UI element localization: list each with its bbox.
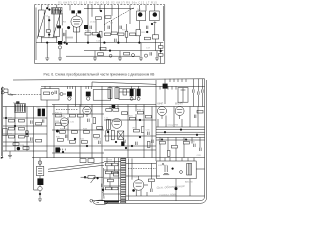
svg-text:С33 05: С33 05	[94, 139, 102, 141]
junction node v1	[48, 19, 50, 21]
svg-text:Рис. 6. Схема преобразовательн: Рис. 6. Схема преобразовательной части п…	[44, 72, 156, 76]
capacitor C5	[115, 39, 117, 42]
svg-text:R54 1м: R54 1м	[84, 178, 92, 180]
label R52	[182, 140, 189, 142]
junction node o	[115, 141, 117, 143]
label C14	[96, 40, 101, 42]
wire: rect bottoms link	[41, 16, 56, 38]
tube V4 envelope	[60, 118, 68, 126]
ground sym 2	[58, 58, 62, 61]
junction node l	[74, 138, 76, 140]
resistor R52	[183, 141, 189, 144]
capacitor C33	[99, 141, 101, 144]
ground lead 4	[119, 51, 121, 58]
wire: dashed AGC link	[56, 108, 78, 110]
resistor R58	[112, 171, 118, 174]
junction blob f	[97, 34, 101, 38]
wire: stepped rail to IF cans	[92, 82, 156, 86]
resistor R31	[69, 114, 75, 117]
resistor R9	[130, 33, 136, 36]
junction blob k	[56, 130, 59, 133]
junction node q4	[196, 134, 198, 136]
capacitor C29	[42, 119, 44, 122]
resistor R15b	[144, 37, 150, 40]
resistor R47	[145, 115, 151, 118]
junction node e	[66, 43, 68, 45]
junction blob j	[17, 147, 20, 150]
wire: riser x118	[117, 5, 119, 43]
decoupling blob C30	[55, 147, 60, 152]
bus: main horizontal rail y106.5	[3, 106, 205, 108]
junction node v2	[48, 34, 50, 36]
capacitor C28	[31, 137, 32, 140]
svg-text:L5 30: L5 30	[90, 21, 96, 23]
IF transformer can T12	[15, 104, 26, 113]
wire: top drops	[48, 5, 146, 24]
chassis top border	[13, 79, 205, 80]
junction node q	[161, 139, 163, 141]
resistor R64	[121, 112, 127, 115]
figure caption	[44, 72, 156, 76]
capacitor C24	[193, 89, 195, 92]
svg-text:к блоку УКВ: к блоку УКВ	[166, 125, 179, 127]
wire: ladder risers B10	[34, 158, 40, 199]
label R33	[55, 121, 60, 123]
coil former L11	[115, 88, 119, 99]
V3 electrodes	[84, 109, 89, 117]
resistor R6	[111, 32, 117, 35]
resistor R70	[36, 122, 42, 125]
transformer T10 core a	[38, 109, 41, 117]
junction blob x	[175, 187, 178, 190]
junction node h	[109, 50, 111, 52]
transformer T10 core b	[42, 109, 45, 117]
capacitor C4	[120, 26, 122, 29]
resistor R29	[23, 147, 29, 150]
label R40	[56, 137, 61, 139]
label D1	[185, 180, 193, 183]
label R12	[141, 32, 146, 34]
wire: right feed drops	[194, 79, 203, 107]
T7 screen circle	[130, 97, 133, 100]
wire: B8 risers	[110, 80, 156, 161]
capacitor C41	[151, 189, 153, 192]
ground sym 3	[93, 58, 97, 61]
ground sym 1	[45, 58, 49, 61]
shield frame left border	[34, 5, 36, 64]
label T10	[37, 106, 42, 108]
speaker coil circle	[38, 186, 42, 190]
oscillator box U2	[178, 88, 188, 103]
svg-text:R2 56: R2 56	[85, 30, 92, 32]
input unit box U1	[41, 89, 59, 100]
speaker plug oval	[93, 200, 107, 205]
label R48	[133, 127, 138, 129]
label loom	[166, 125, 179, 127]
capacitor C20 in U1	[55, 91, 57, 94]
resistor R3	[92, 32, 98, 35]
IF transformer T8 core	[137, 89, 141, 97]
junction blob t2	[102, 189, 104, 191]
ground sym 4	[118, 58, 122, 61]
IF transformer T7 core	[130, 89, 134, 97]
capacitor C7	[150, 52, 152, 55]
label C35	[146, 130, 151, 132]
resistor R21	[8, 119, 14, 122]
V1 top cap blob left	[71, 10, 75, 13]
resistor R34	[93, 118, 96, 124]
svg-text:R7 1к: R7 1к	[122, 29, 128, 31]
resistor R48	[133, 129, 139, 132]
wire: mid risers	[54, 86, 102, 200]
junction blob v	[132, 189, 135, 192]
wire: dashed link in B12	[128, 167, 156, 169]
coil former L10	[108, 88, 112, 99]
antenna terminal A2	[1, 91, 4, 94]
label R21	[8, 117, 13, 119]
junction node v3	[160, 50, 162, 52]
capacitor C31	[65, 135, 67, 138]
wire: strip right riser	[128, 158, 130, 200]
contact ticks row 2	[58, 149, 65, 151]
resistor R45	[129, 117, 135, 120]
heterodyne blob T9	[163, 84, 168, 89]
switch box SW1	[36, 166, 43, 175]
fuse circle F1	[180, 171, 183, 174]
shield frame left inner line	[35, 8, 37, 61]
cathode resistor R63 vertical	[106, 131, 109, 141]
tube V1 envelope	[71, 16, 82, 27]
svg-text:R46 1м: R46 1м	[137, 109, 145, 111]
wire: antenna dashed lead	[15, 94, 41, 96]
IF transformer T5 core	[67, 92, 72, 97]
resistor R11	[105, 16, 111, 19]
label R38	[83, 129, 88, 131]
resistor R62	[148, 179, 154, 182]
capacitor C37	[136, 142, 138, 145]
wire: riser x75.5	[75, 86, 77, 106]
wire: loom drops upper	[158, 107, 198, 128]
svg-text:R52 1к: R52 1к	[182, 140, 189, 142]
shield frame right border	[163, 5, 165, 64]
strip hatch	[121, 159, 125, 203]
junction node s	[39, 193, 41, 195]
V7 electrodes	[177, 109, 183, 119]
capacitor C3	[108, 26, 110, 29]
T12 winding hatch	[15, 104, 25, 112]
junction node q2	[164, 131, 166, 133]
wire: drops into U3	[160, 158, 194, 161]
wire: riser x111	[111, 20, 113, 32]
label strip	[108, 159, 113, 161]
decoupling blob C6	[84, 25, 88, 29]
svg-text:С23 10: С23 10	[18, 125, 26, 127]
junction node q3	[180, 129, 182, 131]
wire: bus screen (top block)	[84, 50, 163, 52]
capacitor C43	[124, 140, 126, 143]
V5 electrodes	[114, 121, 120, 124]
electrolytic cap C42	[163, 165, 169, 174]
resistor R27	[26, 131, 29, 137]
resistor R7	[118, 33, 124, 36]
resistor R42	[81, 141, 87, 144]
capacitor C2	[90, 26, 92, 29]
wire: antenna stub	[4, 89, 15, 95]
resistor R55	[105, 163, 111, 166]
wire: riser x139	[138, 5, 140, 43]
resistor R43	[106, 109, 112, 112]
wire: V1 pins to bus	[73, 32, 79, 43]
shield frame bottom border	[35, 62, 165, 64]
tube V6 envelope	[158, 107, 167, 116]
wire: drops from AVC bus	[160, 86, 176, 89]
svg-text:R36 51к: R36 51к	[60, 129, 68, 131]
V8 electrodes	[135, 176, 142, 186]
capacitor C27	[31, 120, 32, 123]
bus tick i1	[67, 86, 72, 89]
resistor R38	[83, 131, 89, 134]
wire: riser x81	[80, 86, 82, 106]
switch contact box b	[88, 159, 94, 163]
wire: U1 output link	[59, 93, 66, 95]
antenna terminal A1	[1, 88, 4, 91]
ground lead 5	[140, 43, 142, 58]
resistor R39	[93, 135, 99, 138]
V7 label	[175, 103, 183, 106]
ground lead 6	[156, 51, 158, 58]
T4 core dot	[153, 12, 157, 16]
resistor R41	[69, 141, 75, 144]
svg-text:Л1 6Н3П С2 15 L3 R4 1М С6: Л1 6Н3П С2 15 L3 R4 1М С6 20 Л2 6И1П R9 …	[58, 1, 157, 5]
handwritten note line 2	[159, 192, 177, 197]
L1 adjust arrow	[53, 10, 62, 38]
capacitor C40	[102, 184, 104, 187]
wire: riser x88	[87, 5, 89, 43]
D1 inner lines	[188, 163, 190, 175]
T5 screen circle	[68, 97, 71, 100]
label R30	[55, 113, 62, 115]
chassis left border	[2, 87, 4, 158]
resistor R19b right ladder	[158, 54, 163, 57]
resistor R17	[124, 52, 130, 55]
T4 trimmer marks	[153, 21, 156, 24]
IF can shield box 2	[119, 89, 135, 100]
pilot lamp circle	[38, 161, 42, 165]
label L5	[90, 21, 96, 23]
junction node b	[49, 9, 51, 11]
junction node p	[125, 147, 127, 149]
shield frame of converter unit (dashed top)	[35, 4, 165, 6]
junction node o2	[107, 131, 109, 133]
junction dots on B+ bus	[46, 42, 140, 44]
capacitor C26	[202, 89, 204, 92]
label R25	[8, 133, 13, 135]
V4 electrodes	[62, 121, 67, 129]
label V8	[132, 176, 139, 178]
capacitor C38	[194, 144, 196, 147]
wire: loom drops lower	[160, 137, 200, 157]
svg-text:6А2П: 6А2П	[13, 101, 19, 104]
handwritten note line 1	[156, 184, 184, 190]
V6 electrodes	[159, 109, 165, 119]
junction node g	[100, 10, 102, 12]
junction blob c	[67, 26, 70, 29]
label R2	[85, 30, 92, 32]
resistor R13	[152, 35, 158, 39]
wire: U3 to border	[196, 168, 204, 170]
junction node t	[84, 176, 86, 178]
junction node n	[86, 145, 88, 147]
ground sym 8	[38, 199, 42, 202]
L10 slug line	[109, 88, 111, 99]
resistor R26	[18, 135, 24, 138]
wire: left rows	[3, 118, 47, 151]
resistor R61	[112, 187, 118, 190]
svg-text:П2К: П2К	[108, 159, 113, 161]
label Gn	[10, 93, 14, 97]
label C38	[191, 142, 196, 144]
label C39	[197, 155, 202, 157]
resistor R19a right ladder	[158, 46, 163, 49]
capacitor C44	[194, 115, 196, 118]
resistor R30	[55, 114, 61, 117]
wiring loom lines	[156, 127, 205, 140]
bus tick i2	[86, 86, 91, 89]
resistor R36	[59, 131, 65, 134]
svg-text:Гн: Гн	[10, 93, 14, 97]
V1 grid/anode electrodes	[73, 13, 80, 24]
socket circle S3	[109, 54, 112, 57]
tube V8 envelope	[133, 180, 144, 191]
label C28	[20, 145, 25, 147]
ground lead 3	[94, 51, 96, 58]
oscillator coil T3 box	[137, 11, 146, 21]
label V3	[82, 105, 88, 107]
label R46	[137, 109, 145, 111]
coil former L12	[106, 119, 110, 129]
label V5	[114, 119, 120, 121]
resistor R10	[95, 17, 101, 20]
capacitor C10	[146, 26, 148, 29]
V5 socket box with cross	[118, 131, 124, 139]
resistor R66	[197, 110, 203, 113]
wire: pot leads	[81, 168, 104, 193]
resistor R40	[57, 139, 63, 142]
resistor R12	[136, 30, 141, 36]
capacitor C35	[148, 132, 150, 135]
label Л2	[137, 9, 141, 11]
wire: bus B+ (top block)	[36, 42, 163, 44]
shield box on left border	[3, 129, 8, 136]
Dr1 screen circle	[58, 46, 61, 49]
choke Dr1 core	[58, 41, 62, 45]
trimmer node in U1	[51, 92, 53, 94]
junction node a	[46, 7, 48, 9]
junction node w2	[14, 125, 16, 127]
svg-text:6К4П: 6К4П	[157, 103, 163, 106]
IF transformer T6 core	[86, 92, 91, 97]
V1 top cap blob right	[78, 10, 82, 13]
resistor R53	[167, 150, 170, 156]
coil L1	[54, 10, 60, 37]
junction node o4	[131, 145, 133, 147]
V8 base pins	[136, 185, 148, 196]
L12 slug	[107, 119, 109, 129]
label V2	[13, 101, 19, 104]
tone switch rect	[113, 173, 118, 176]
resistor R57	[105, 171, 111, 174]
resistor R18	[46, 30, 50, 32]
resistor R25	[8, 135, 14, 138]
wire: antenna input riser	[41, 5, 56, 43]
V1 base pins	[73, 26, 79, 32]
wire: upper rail top block	[84, 8, 134, 10]
power unit box U3	[157, 161, 197, 179]
rectifier rect D1	[187, 163, 192, 175]
label pot	[84, 178, 92, 180]
wire: U3 bottom leads	[176, 179, 190, 201]
capacitor C32	[88, 119, 90, 122]
chassis right border outer	[104, 80, 207, 203]
resistor R49	[141, 127, 144, 133]
bus: rail y157.6	[32, 157, 205, 159]
resistor R33	[55, 123, 61, 126]
resistor R71	[36, 139, 42, 142]
label L12	[105, 117, 109, 119]
wire: comb drops from top border	[170, 79, 186, 82]
ground sym 7	[8, 155, 12, 158]
resistor R4	[99, 31, 102, 37]
U2 inner coil line	[181, 88, 186, 103]
junction node u	[97, 177, 99, 179]
ground lead 1	[46, 43, 48, 58]
junction node v4	[146, 31, 148, 33]
junction node d	[64, 42, 66, 44]
socket circle S2	[144, 54, 147, 57]
resistor R28	[13, 143, 19, 146]
contact ticks row	[66, 37, 72, 39]
oscillator coil T4 box	[150, 11, 160, 21]
junction node w	[172, 168, 174, 170]
socket cross lines	[118, 131, 124, 139]
wire: riser x96	[95, 20, 97, 32]
grid resistor R67 vertical	[111, 130, 114, 140]
resistor R46	[137, 111, 143, 114]
resistor R14 on screen bus	[100, 47, 106, 50]
capacitor C36	[152, 140, 154, 143]
label R7	[122, 29, 128, 31]
resistor R44	[113, 109, 119, 112]
label C17	[146, 48, 151, 50]
svg-text:6И1П: 6И1П	[82, 105, 88, 107]
output transformer core T11	[37, 178, 43, 185]
label C1	[46, 16, 50, 18]
pointer arrowhead at left margin	[1, 157, 4, 159]
junction node y2	[139, 136, 141, 138]
junction node v5	[151, 23, 153, 25]
plug inner mark	[97, 201, 99, 203]
capacitor C8	[63, 33, 65, 36]
junction node w3	[26, 133, 28, 135]
wire: left column risers	[6, 100, 47, 158]
resistor R50	[159, 141, 165, 144]
V6 label	[157, 103, 163, 106]
dial contact strip (hatched bar)	[121, 158, 126, 202]
wire: bus heater (top block)	[66, 55, 140, 57]
resistor R51	[171, 145, 177, 148]
T8 screen circle	[137, 97, 140, 100]
wire: riser x126	[126, 24, 128, 43]
